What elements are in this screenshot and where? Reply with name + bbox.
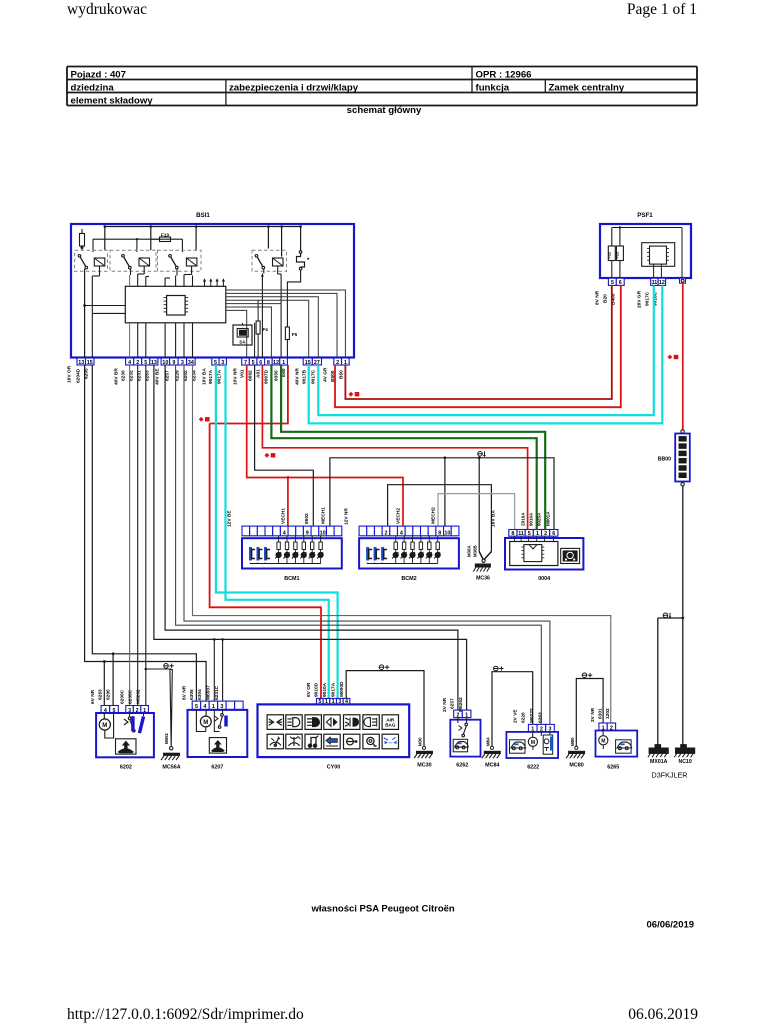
wire red battery feed to BB00 [682,282,684,430]
PSF1 pin wire labels left [595,290,617,305]
BSI1 pin wire labels group4 [202,368,223,385]
controller up arrows [203,278,225,286]
svg-text:1: 1 [344,360,347,366]
svg-text:9067D: 9067D [264,369,270,384]
svg-text:4: 4 [283,531,286,537]
wire black bus BCM1 pin10 to 0004 pin6 [330,456,554,551]
svg-text:13: 13 [151,360,157,366]
svg-text:9017A: 9017A [331,682,337,697]
svg-text:M5202: M5202 [136,689,142,704]
CY00 icon glyphs row2 [270,736,397,747]
PSF1 fuse elements [608,246,624,278]
svg-text:9356: 9356 [274,370,280,381]
CY00 wire labels [306,681,345,697]
svg-text:OPR : 12966: OPR : 12966 [476,70,532,81]
svg-text:6: 6 [619,280,622,286]
wire cyan PSF1 pin11 to BSI1 [318,285,654,415]
svg-text:6V NR: 6V NR [182,685,188,700]
svg-text:własności PSA Peugeot Citroën: własności PSA Peugeot Citroën [311,904,455,915]
svg-text:8V NR: 8V NR [595,290,601,305]
svg-text:F22: F22 [608,252,612,259]
CY00 icon tiles row1 [267,715,398,730]
ground ref symbol MC84 [494,666,499,671]
svg-text:M6507: M6507 [206,685,212,700]
svg-text:BCM2: BCM2 [401,576,416,582]
svg-text:10: 10 [320,531,326,537]
svg-text:10: 10 [162,360,168,366]
svg-text:12: 12 [273,360,279,366]
svg-text:Page 1 of 1: Page 1 of 1 [627,1,697,18]
power feed symbol near BB00 [668,355,673,360]
wire black 6222 pin1 to MC84 [492,672,533,747]
svg-text:M84: M84 [486,737,491,746]
6265 wire labels [590,707,611,722]
thermal switch [297,251,311,270]
6202 wire labels [90,689,142,704]
CY00 icon tiles row2 [267,734,398,749]
svg-text:12V NR: 12V NR [344,508,350,525]
svg-text:M5262: M5262 [458,697,464,712]
svg-text:A01: A01 [256,369,262,378]
wire gray BSI1 to 6265 pin2 [193,365,611,723]
svg-text:40V BE: 40V BE [155,368,161,385]
svg-text:27: 27 [314,360,320,366]
svg-text:12V BE: 12V BE [227,510,233,527]
wire black BSI1 15 to door motors return [92,365,196,706]
svg-text:2: 2 [136,360,139,366]
svg-text:5: 5 [611,280,614,286]
svg-text:B50: B50 [339,370,345,379]
wire dark BSI1 to 6222 pin3 [184,365,550,724]
svg-text:11: 11 [518,531,524,537]
svg-text:V01: V01 [240,369,246,378]
unit 6222 [506,724,558,770]
svg-text:9010A: 9010A [322,682,328,697]
svg-text:6V OR: 6V OR [306,682,312,697]
svg-text:M: M [531,740,535,746]
svg-text:6226: 6226 [521,712,527,723]
unit BSI1 box [71,224,354,358]
svg-text:6304: 6304 [197,689,203,700]
PSF1 control module U2 [642,243,675,278]
svg-text:B20: B20 [603,294,609,303]
ground MC84 [482,737,501,768]
svg-text:1: 1 [465,712,468,718]
svg-text:M: M [102,723,107,729]
svg-text:CY00: CY00 [327,764,341,770]
svg-text:15: 15 [87,360,93,366]
svg-text:MC30: MC30 [417,762,431,768]
svg-text:8: 8 [267,360,270,366]
svg-text:M001A: M001A [546,511,551,526]
svg-text:6682: 6682 [248,370,254,381]
svg-text:2: 2 [544,531,547,537]
svg-text:9017C: 9017C [311,369,317,384]
unit 6265 [596,723,638,770]
svg-text:40V BR: 40V BR [114,368,120,385]
PSF1 output terminal [680,278,686,283]
svg-text:6: 6 [259,360,262,366]
svg-text:M80: M80 [570,737,575,746]
svg-text:BSI1: BSI1 [196,212,210,219]
svg-text:6200C: 6200C [120,689,126,704]
power feed symbol on pin5 wire [349,392,354,397]
svg-text:BCM1: BCM1 [284,576,299,582]
wire red PSF1 pin6 to BSI1 [335,285,621,407]
unit BCM2 [359,526,459,582]
BSI1 top bus wire [104,225,302,256]
svg-text:6235C: 6235C [128,689,134,704]
BSI1 sub-module [233,323,252,345]
svg-text:16V BA: 16V BA [491,510,497,527]
svg-text:M0222: M0222 [529,708,535,723]
svg-text:11: 11 [652,280,658,286]
svg-text:9: 9 [172,360,175,366]
svg-text:06.06.2019: 06.06.2019 [628,1006,698,1023]
svg-text:6295: 6295 [106,689,112,700]
svg-text:6207: 6207 [211,764,223,770]
wire red PSF1 pin5 to BSI1 [345,285,611,399]
svg-text:6V NR: 6V NR [90,689,96,704]
svg-text:9017C: 9017C [645,291,651,306]
svg-text:VECH2: VECH2 [396,508,402,524]
fuse F4 [256,300,268,358]
svg-text:2V NR: 2V NR [442,697,448,712]
unit BCM1 [242,526,342,582]
svg-text:MECH1: MECH1 [321,507,327,524]
svg-text:10: 10 [444,531,450,537]
CY00 icon glyphs row1 [269,717,396,727]
BSI1 pin wire labels group2 [114,368,151,385]
unit 6202 [96,706,154,771]
svg-text:http://127.0.0.1:6092/Sdr/impr: http://127.0.0.1:6092/Sdr/imprimer.do [67,1006,304,1023]
wire black BSI1 to 6202 pin1 and MC56A [145,365,171,706]
svg-text:NC10: NC10 [678,759,691,765]
svg-text:2: 2 [384,531,387,537]
svg-text:6257: 6257 [449,698,455,709]
power feed symbol near red 0004 wire [265,453,270,458]
svg-text:3: 3 [181,360,184,366]
svg-text:16V OR: 16V OR [67,365,73,383]
6262 wire labels [442,697,464,712]
BSI1 pin wire labels group5 [233,368,288,385]
svg-text:BAG: BAG [385,723,396,728]
relay K1 internal wires [83,266,125,358]
svg-text:8: 8 [511,531,514,537]
svg-text:2: 2 [336,360,339,366]
info table frame [67,67,697,106]
relay K2 (dashed group) [110,250,156,271]
svg-text:element składowy: element składowy [71,96,154,107]
ground MC56A [161,664,181,771]
svg-text:5: 5 [144,360,147,366]
svg-text:2V VE: 2V VE [513,709,519,723]
svg-text:M000D: M000D [339,681,345,697]
svg-text:F4: F4 [263,327,269,332]
BSI1 ignition switch S1 [80,229,85,250]
svg-text:F5: F5 [292,332,298,337]
svg-text:2V NR: 2V NR [590,707,596,722]
ground MX01A [648,745,668,765]
svg-text:3: 3 [221,360,224,366]
svg-text:wydrukowac: wydrukowac [67,1,147,18]
svg-text:40V NR: 40V NR [295,368,301,385]
svg-text:MC80: MC80 [569,762,583,768]
svg-text:6202: 6202 [120,764,132,770]
BCM2 wire labels [344,507,437,525]
svg-text:4: 4 [128,360,131,366]
svg-text:Z010A: Z010A [521,512,526,526]
0004 wire labels [491,510,551,527]
ground MC36 [466,544,491,581]
unit 6207 [188,701,248,770]
6222 wire labels [513,708,544,723]
power feed symbol at red node [199,417,204,422]
wire red BSI1 to BCM1/BCM2 [247,365,403,526]
fuse F5 [285,270,300,358]
svg-text:06/06/2019: 06/06/2019 [647,920,695,931]
wire black BSI1 to BCM1 pin9 [255,365,314,526]
unit 0004 [505,530,583,582]
svg-text:Pojazd : 407: Pojazd : 407 [71,70,126,81]
svg-text:2: 2 [457,712,460,718]
svg-text:4: 4 [400,531,403,537]
ground NC10 [674,745,694,765]
svg-text:schemat główny: schemat główny [347,105,422,116]
BSI1 secondary bus wire [93,238,182,252]
relay K4 (dashed group) [252,250,287,271]
svg-text:F23: F23 [616,252,620,259]
ground ref symbol at BB00 branch [663,613,668,618]
ground MC80 [566,737,585,768]
BSI1 controller box [125,286,226,323]
svg-text:1: 1 [536,531,539,537]
svg-text:6262: 6262 [456,762,468,768]
wire red BSI1 to 0004 [262,365,527,530]
unit PSF1 box [600,224,691,278]
svg-text:MC84: MC84 [485,762,499,768]
svg-text:F10: F10 [161,233,170,239]
wire cyan PSF1 pin12 to BSI1 [309,285,663,423]
svg-text:PSF1: PSF1 [637,212,653,219]
BCM1 wire labels [227,507,327,527]
ground ref symbol on bus [478,452,483,457]
svg-text:9: 9 [306,531,309,537]
wire black CY00 pin4 to MC30 [346,671,424,747]
wire dark BSI1 to 6222 pin2 [176,365,542,724]
wire black BCM2 pin2 to MC36 [388,485,492,552]
wire gray BSI1 to 6202 pin3 [129,365,131,706]
svg-text:6: 6 [552,531,555,537]
svg-text:M30: M30 [418,737,423,746]
svg-text:dziedzina: dziedzina [71,83,115,94]
svg-text:12: 12 [659,280,665,286]
svg-text:6230: 6230 [121,370,127,381]
BSI1 pin wire labels group1 [67,365,90,383]
svg-text:1: 1 [282,360,285,366]
relay K3 internal wires [165,266,192,358]
svg-text:10V NR: 10V NR [233,368,239,385]
svg-text:DA: DA [239,340,245,345]
svg-text:M: M [601,739,605,745]
relay K4 internal wires [261,266,281,358]
wire cyan BSI1 to CY00 B [226,365,329,698]
svg-text:28V GR: 28V GR [637,290,643,308]
svg-text:6301: 6301 [597,708,603,719]
svg-text:9010A: 9010A [529,512,534,526]
svg-text:BB00: BB00 [658,457,671,463]
svg-text:5: 5 [528,531,531,537]
svg-text:MC56A: MC56A [162,764,180,770]
connector BB00 [658,430,690,486]
svg-text:6263: 6263 [537,712,543,723]
wire black 6265 pin1 to MC80 [576,679,603,747]
wire black BB00 down to grounds [658,486,684,745]
svg-text:9017A: 9017A [208,369,214,384]
svg-text:VECH1: VECH1 [281,508,287,524]
wire red fused feed from BSI1 pin1 to CY00 [210,365,321,698]
svg-text:MECH2: MECH2 [431,507,437,524]
BSI1 pin wire labels group6 [295,368,317,385]
svg-text:M36A: M36A [466,544,471,557]
svg-text:MC36: MC36 [476,576,490,582]
wire black BSI1 13 to door motors feed [85,365,207,706]
wire black BSI1 to 6202 pin2 [137,365,139,706]
wire green BSI1 to 0004 A [281,365,545,530]
svg-text:34: 34 [188,360,194,366]
svg-text:5: 5 [214,360,217,366]
wire cyan BSI1 to CY00 A [216,365,338,698]
relay K3 (dashed group) [158,250,202,271]
svg-text:15: 15 [305,360,311,366]
svg-text:M: M [203,720,208,726]
svg-text:13: 13 [78,360,84,366]
relay K2 internal wires [130,266,149,358]
BSI1 pin wire labels group3 [155,368,198,385]
svg-text:10V BA: 10V BA [202,368,208,385]
svg-text:9017A: 9017A [217,369,223,384]
controller bottom pin wires [247,323,255,358]
relay K1 (dashed group) [75,250,108,271]
svg-text:D3FKJLER: D3FKJLER [652,771,688,780]
svg-text:9025A: 9025A [537,512,542,526]
svg-text:6204D: 6204D [76,368,82,383]
svg-text:zabezpieczenia i drzwi/klapy: zabezpieczenia i drzwi/klapy [229,83,359,94]
svg-text:9017B: 9017B [302,369,308,384]
svg-text:1202: 1202 [605,708,611,719]
PSF1 pin connectors [608,278,665,286]
svg-text:8502: 8502 [304,513,310,524]
svg-text:M36B: M36B [473,545,478,557]
svg-text:6283: 6283 [98,689,104,700]
fuse F10 [151,233,171,242]
BSI1 pin connectors [77,358,349,366]
PSF1 internal bus [612,226,682,278]
svg-text:7: 7 [244,360,247,366]
wire green BSI1 to 0004 B [271,365,536,530]
svg-text:6265: 6265 [607,764,619,770]
svg-text:6231C: 6231C [214,685,220,700]
svg-text:6305: 6305 [189,689,195,700]
svg-text:M651: M651 [164,732,169,744]
svg-text:8: 8 [438,531,441,537]
svg-text:9010D: 9010D [314,682,320,697]
svg-text:funkcja: funkcja [476,83,510,94]
svg-text:Zamek centralny: Zamek centralny [549,83,625,94]
ground MC30 [414,737,433,768]
ground ref symbol MC80 [582,673,587,678]
wire black BSI1 to 6262 pin2 [165,365,458,710]
controller output fan wires [226,290,346,358]
6207 wire labels [182,685,221,700]
wire black BSI1 to 6207 and 6262 pin1 [154,365,467,710]
BSI1 pin wire labels group7 [323,367,345,382]
unit 6262 [450,710,480,768]
wire gray BCM2 pin8 to 0004 pin8 [438,494,515,530]
svg-text:MX01A: MX01A [650,759,668,765]
svg-text:0004: 0004 [538,576,550,582]
ground ref symbol MC30 [379,665,384,670]
svg-text:AIR: AIR [386,717,395,722]
svg-text:5: 5 [252,360,255,366]
PSF1 pin wire labels right [637,290,659,308]
svg-text:4V GR: 4V GR [323,367,329,382]
svg-text:6222: 6222 [527,764,539,770]
unit CY00 [258,698,410,770]
